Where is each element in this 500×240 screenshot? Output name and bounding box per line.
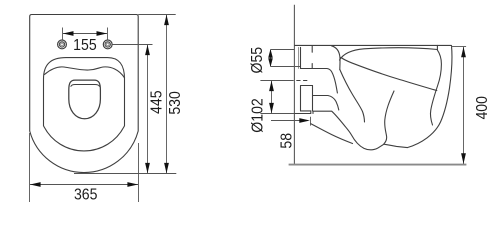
side view: seat front edge [431, 50, 442, 125]
side view: lid back corner [332, 46, 341, 70]
dim 365: right arrowhead [127, 182, 138, 187]
dim 58: end tick [310, 117, 312, 126]
dim 400: bottom arrowhead [461, 153, 466, 163]
side view: hidden outlet top dashed line [296, 80, 309, 82]
svg-text:Ø55: Ø55 [250, 47, 267, 74]
dim 530: dimension line [166, 15, 168, 174]
side view: inlet spigot verticals [300, 47, 302, 68]
dim 445: top arrowhead [145, 45, 150, 55]
dim 530: top extension line [138, 14, 176, 16]
side view: seat underside sweep curve [341, 58, 437, 91]
side view: floor line [289, 164, 467, 166]
side view: wall line [293, 5, 295, 164]
side view: bowl back outer line [340, 70, 365, 123]
dim 445: bottom arrowhead [145, 163, 150, 173]
svg-text:365: 365 [74, 187, 98, 204]
top view: left mounting hole [58, 40, 67, 49]
dim 58: arrowhead [299, 118, 310, 123]
dim 445/530: bottom extension line [74, 173, 176, 175]
side view: housing top step ticks [311, 46, 313, 69]
top view: lid inner opening [69, 80, 101, 119]
top view: right mounting hole [103, 40, 112, 49]
dim 58: dimension line [271, 120, 308, 122]
dim O55: extension lines [271, 50, 301, 67]
side view: trapway inner line [384, 91, 394, 144]
dim 400: top arrowhead [461, 47, 466, 57]
side view: outlet spigot bottom line [294, 113, 310, 115]
side view: lid front edge tick [436, 45, 438, 49]
top view: seat outer outline [44, 58, 125, 151]
side view: outlet step ticks [311, 111, 313, 114]
side view: lid bottom edge [340, 48, 438, 60]
side view: housing shoulder ledge [301, 69, 338, 94]
svg-text:155: 155 [73, 38, 97, 55]
top view: seat lid wave line [45, 67, 125, 78]
dim 155: left arrowhead [63, 31, 74, 36]
dim 400: dimension line [463, 47, 465, 164]
side view: housing inner step curve [313, 86, 339, 111]
side view: bowl front face [407, 46, 452, 148]
svg-text:400: 400 [474, 96, 491, 120]
svg-text:530: 530 [167, 91, 184, 115]
dim 155: extension ticks [63, 28, 108, 40]
dim O55: dimension line [270, 50, 272, 67]
dim 155: dimension line [63, 33, 107, 35]
dim O102: top arrowhead [269, 81, 274, 91]
svg-text:58: 58 [279, 133, 296, 149]
dim O102: bottom arrowhead [269, 103, 274, 113]
svg-text:Ø102: Ø102 [250, 98, 267, 132]
svg-text:445: 445 [149, 90, 166, 114]
dim O55: top arrowhead [268, 49, 273, 58]
dim 445: top extension line [112, 44, 152, 46]
dim 365: dimension line [30, 184, 138, 186]
dim O102: dimension line [271, 81, 273, 114]
dim O102: extension lines [260, 81, 294, 114]
side view: outlet housing box [301, 86, 313, 111]
dim 365: extension lines [30, 133, 139, 202]
dim 155: right arrowhead [97, 31, 108, 36]
dim O55: bottom arrowhead [268, 58, 273, 67]
dim 400: top extension line [451, 46, 466, 48]
top view: pan outer outline [30, 15, 139, 173]
dim 365: left arrowhead [30, 182, 41, 187]
dim 530: top arrowhead [164, 15, 169, 25]
top view: lid inner opening second line [71, 85, 100, 87]
side view: top surface line [295, 44, 452, 46]
side view: inlet spigot inner vertical [298, 47, 300, 68]
dim 530: bottom arrowhead [164, 163, 169, 173]
side view: outlet lower step line and bowl underside [301, 111, 408, 150]
side view: outlet underside slope line [311, 124, 353, 144]
dim 445: dimension line [147, 45, 149, 174]
